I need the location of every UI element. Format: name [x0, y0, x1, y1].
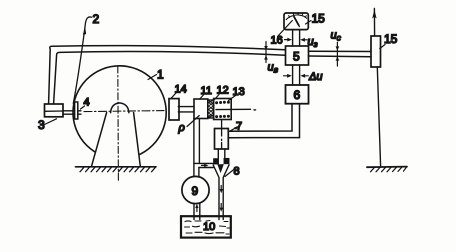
pointer line for 4 — [81, 106, 85, 109]
pointer line for rho — [187, 116, 199, 127]
needle cone of valve 8 — [218, 165, 223, 172]
wire meter to box 5 — [293, 30, 300, 46]
uv marker — [265, 42, 267, 63]
machine ground hatching — [80, 167, 156, 172]
pointer line for 11 — [200, 95, 204, 99]
shaft stub right of disc — [78, 111, 81, 114]
uc marker — [336, 42, 338, 66]
cylinder box 13 — [214, 99, 232, 120]
hatched piston 12 — [208, 100, 214, 118]
svg-text:11: 11 — [201, 85, 212, 97]
meter needle — [293, 16, 299, 27]
pointer arrow for 7 — [231, 127, 238, 131]
valve stem from cylinder 13 into box 7 — [221, 120, 223, 149]
pedestal dome — [111, 103, 129, 113]
svg-text:9: 9 — [192, 184, 199, 198]
tank 10 — [181, 216, 231, 237]
pedestal right leg — [134, 113, 141, 167]
wire top outer line from tacho to box 5 — [49, 46, 285, 104]
meter scale arc — [286, 15, 306, 20]
machine circle 1 — [73, 66, 166, 159]
pump bottom stub — [194, 204, 200, 220]
shaft box3 to coupling — [63, 111, 75, 114]
horizontal pipe to valve: bottom line — [199, 167, 214, 169]
pedestal interior mask hiding circle bottom arc — [92, 113, 141, 167]
svg-text:uc: uc — [331, 30, 342, 43]
svg-text:16: 16 — [271, 35, 283, 47]
svg-text:14: 14 — [175, 84, 187, 96]
flow arrow right in pipe — [202, 164, 205, 166]
coupling disc 4 — [75, 102, 78, 119]
svg-text:3: 3 — [38, 118, 45, 132]
pointer line for 16 — [278, 21, 293, 37]
svg-text:1: 1 — [157, 68, 164, 82]
pipe 7 to column: top line — [228, 104, 292, 131]
machine ground line — [76, 166, 157, 168]
pilot valve box 7 — [215, 129, 229, 150]
svg-text:15: 15 — [312, 12, 326, 26]
wire box5 to rheostat — [309, 51, 372, 57]
summing box 5 — [286, 46, 309, 65]
box 3 inner line — [45, 110, 64, 112]
amplifier box 6 — [286, 85, 309, 104]
meter scale ticks — [289, 13, 307, 18]
pointer line for 3 — [45, 119, 57, 125]
svg-text:Δu: Δu — [308, 71, 323, 83]
down arrow drain pipe lower — [220, 204, 222, 208]
svg-text:5: 5 — [293, 50, 300, 64]
wire top inner line — [54, 51, 285, 103]
nozzle seat left block — [214, 159, 219, 164]
svg-text:ρ: ρ — [178, 122, 185, 134]
pump top stub right — [198, 168, 200, 178]
tachogenerator box 3 — [45, 104, 64, 117]
dots of 13 top row — [215, 101, 230, 105]
pointer line for 12 — [215, 95, 220, 100]
pedestal left leg — [92, 113, 107, 167]
svg-text:2: 2 — [93, 12, 100, 26]
svg-text:8: 8 — [234, 166, 240, 178]
supply pipe rho right line — [198, 119, 200, 164]
pointer line for 15 right — [380, 45, 385, 49]
pointer line for 8 — [225, 170, 234, 177]
arrowhead on pointer 2 — [83, 28, 86, 35]
wire box5 to box6 — [293, 65, 300, 85]
rheostat down lead — [377, 67, 380, 166]
horizontal pipe to valve: top line — [194, 162, 214, 164]
svg-text:15: 15 — [384, 32, 398, 46]
up arrow pump suction — [196, 208, 198, 212]
vertical dash-dot centerline of machine — [117, 66, 120, 182]
funnel left wall — [213, 165, 219, 220]
dots of 13 bottom row — [215, 115, 230, 118]
right ground line — [367, 166, 407, 169]
down arrow drain pipe upper — [220, 186, 222, 190]
pointer line for 14 — [172, 93, 177, 98]
funnel right wall — [223, 165, 229, 220]
pump circle 9 — [182, 176, 209, 203]
tank liquid waves — [185, 221, 230, 235]
coupling box 14 — [169, 99, 179, 120]
supply pipe rho left line — [193, 119, 195, 177]
horizontal dash-dot centerline of shaft — [84, 111, 164, 112]
meter box 15 — [284, 13, 308, 30]
pointer line for 2 — [73, 17, 91, 104]
pointer line for 1 — [148, 75, 157, 80]
pointer line for 13 — [229, 96, 236, 101]
rheostat slider arrow up — [373, 9, 375, 37]
piston rod out of 13 — [216, 108, 251, 110]
measuring coupling box 11 — [194, 99, 208, 119]
shaft box14 to box 11 — [178, 107, 194, 112]
rod centerline dot — [254, 109, 256, 111]
delta-u arrows — [284, 75, 309, 77]
nozzle seat right block — [224, 158, 229, 163]
pointer line for 15 top — [306, 21, 312, 25]
svg-text:uз: uз — [308, 36, 318, 49]
svg-text:uв: uв — [268, 62, 279, 75]
pipe below 7 — [218, 149, 225, 158]
svg-text:6: 6 — [294, 88, 301, 102]
u3 arrows — [285, 39, 308, 41]
rheostat 15 right — [371, 36, 381, 67]
right ground hatching — [371, 167, 407, 172]
svg-text:10: 10 — [203, 221, 215, 233]
pipe 7 to column: bottom line — [228, 104, 299, 138]
